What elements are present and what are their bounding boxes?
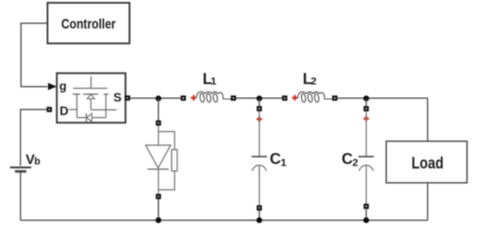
MOSFET icon body-diode triangle — [87, 113, 92, 121]
wire L2 to load — [337, 97, 427, 99]
svg-text:C: C — [342, 151, 353, 168]
node B junction dot — [256, 96, 262, 102]
svg-text:1: 1 — [211, 76, 217, 88]
MOSFET U1 block — [57, 73, 126, 123]
svg-text:Load: Load — [412, 154, 444, 172]
svg-text:2: 2 — [352, 157, 358, 169]
L2 polarity plus — [292, 95, 298, 101]
L1 polarity plus — [191, 95, 197, 101]
capacitor C2 — [359, 111, 374, 204]
wire load bottom to rail — [427, 183, 429, 220]
MOSFET icon body vertical — [90, 99, 92, 110]
wire C1 to bottom rail — [258, 210, 260, 220]
diode D1 top port square — [156, 120, 161, 125]
junction dot diode bottom — [156, 217, 162, 223]
MOSFET icon channel segments — [73, 93, 109, 95]
wire to load top — [427, 98, 429, 141]
diode D1 bottom port square — [156, 194, 161, 199]
port D square — [47, 107, 52, 112]
wire L1 to node B — [236, 97, 282, 99]
junction dot C2 bottom — [363, 217, 369, 223]
MOSFET icon bottom wire — [77, 117, 106, 119]
load block — [386, 141, 467, 183]
wire node C to C2 — [365, 98, 367, 106]
svg-text:2: 2 — [311, 76, 317, 88]
MOSFET icon source line — [91, 109, 117, 111]
wire diode to bottom rail — [157, 199, 159, 220]
wire C2 to bottom rail — [365, 209, 367, 220]
C1 polarity plus — [257, 116, 263, 122]
inductor L1 — [181, 92, 236, 103]
wire battery to bottom rail — [20, 173, 22, 221]
svg-text:D: D — [60, 104, 69, 118]
wire controller to gate — [21, 23, 48, 86]
C2 top port square — [364, 106, 369, 111]
L1 right port square — [231, 96, 236, 101]
MOSFET icon source-side vertical — [105, 94, 107, 118]
wire node A to diode — [157, 98, 159, 121]
bottom rail wire — [21, 219, 428, 221]
MOSFET icon gate bar — [73, 87, 107, 89]
junction dot C1 bottom — [256, 217, 262, 223]
diode D1 with snubber — [146, 126, 178, 195]
svg-text:Controller: Controller — [61, 16, 116, 31]
svg-text:b: b — [34, 156, 40, 167]
wire node B to C1 — [258, 98, 260, 106]
capacitor C1 — [252, 111, 267, 205]
L1 coil — [196, 92, 200, 99]
battery Vb symbol — [10, 167, 31, 171]
wire S to node A — [130, 97, 181, 99]
controller block — [48, 3, 130, 44]
svg-text:C: C — [270, 151, 281, 168]
svg-text:g: g — [59, 79, 66, 93]
L2 left port square — [282, 96, 287, 101]
C2 polarity plus — [363, 116, 369, 122]
MOSFET icon drain-side vertical — [76, 94, 78, 118]
L1 left port square — [181, 96, 186, 101]
L2 coil — [297, 92, 301, 99]
gate input arrow — [48, 83, 57, 90]
wire D to battery — [21, 110, 47, 166]
port S square — [125, 95, 130, 100]
svg-text:S: S — [113, 91, 121, 105]
svg-text:1: 1 — [281, 157, 287, 169]
MOSFET icon drain lead — [69, 109, 77, 111]
MOSFET icon gate stub — [90, 76, 92, 88]
node A junction dot — [156, 96, 162, 102]
L2 right port square — [332, 96, 337, 101]
MOSFET icon body arrow — [87, 94, 95, 98]
MOSFET icon body-diode cathode bar — [85, 113, 87, 121]
inductor L2 — [282, 92, 337, 103]
C2 bottom port square — [364, 204, 369, 209]
node C junction dot — [363, 96, 369, 102]
C1 bottom port square — [257, 205, 262, 210]
C1 top port square — [257, 106, 262, 111]
